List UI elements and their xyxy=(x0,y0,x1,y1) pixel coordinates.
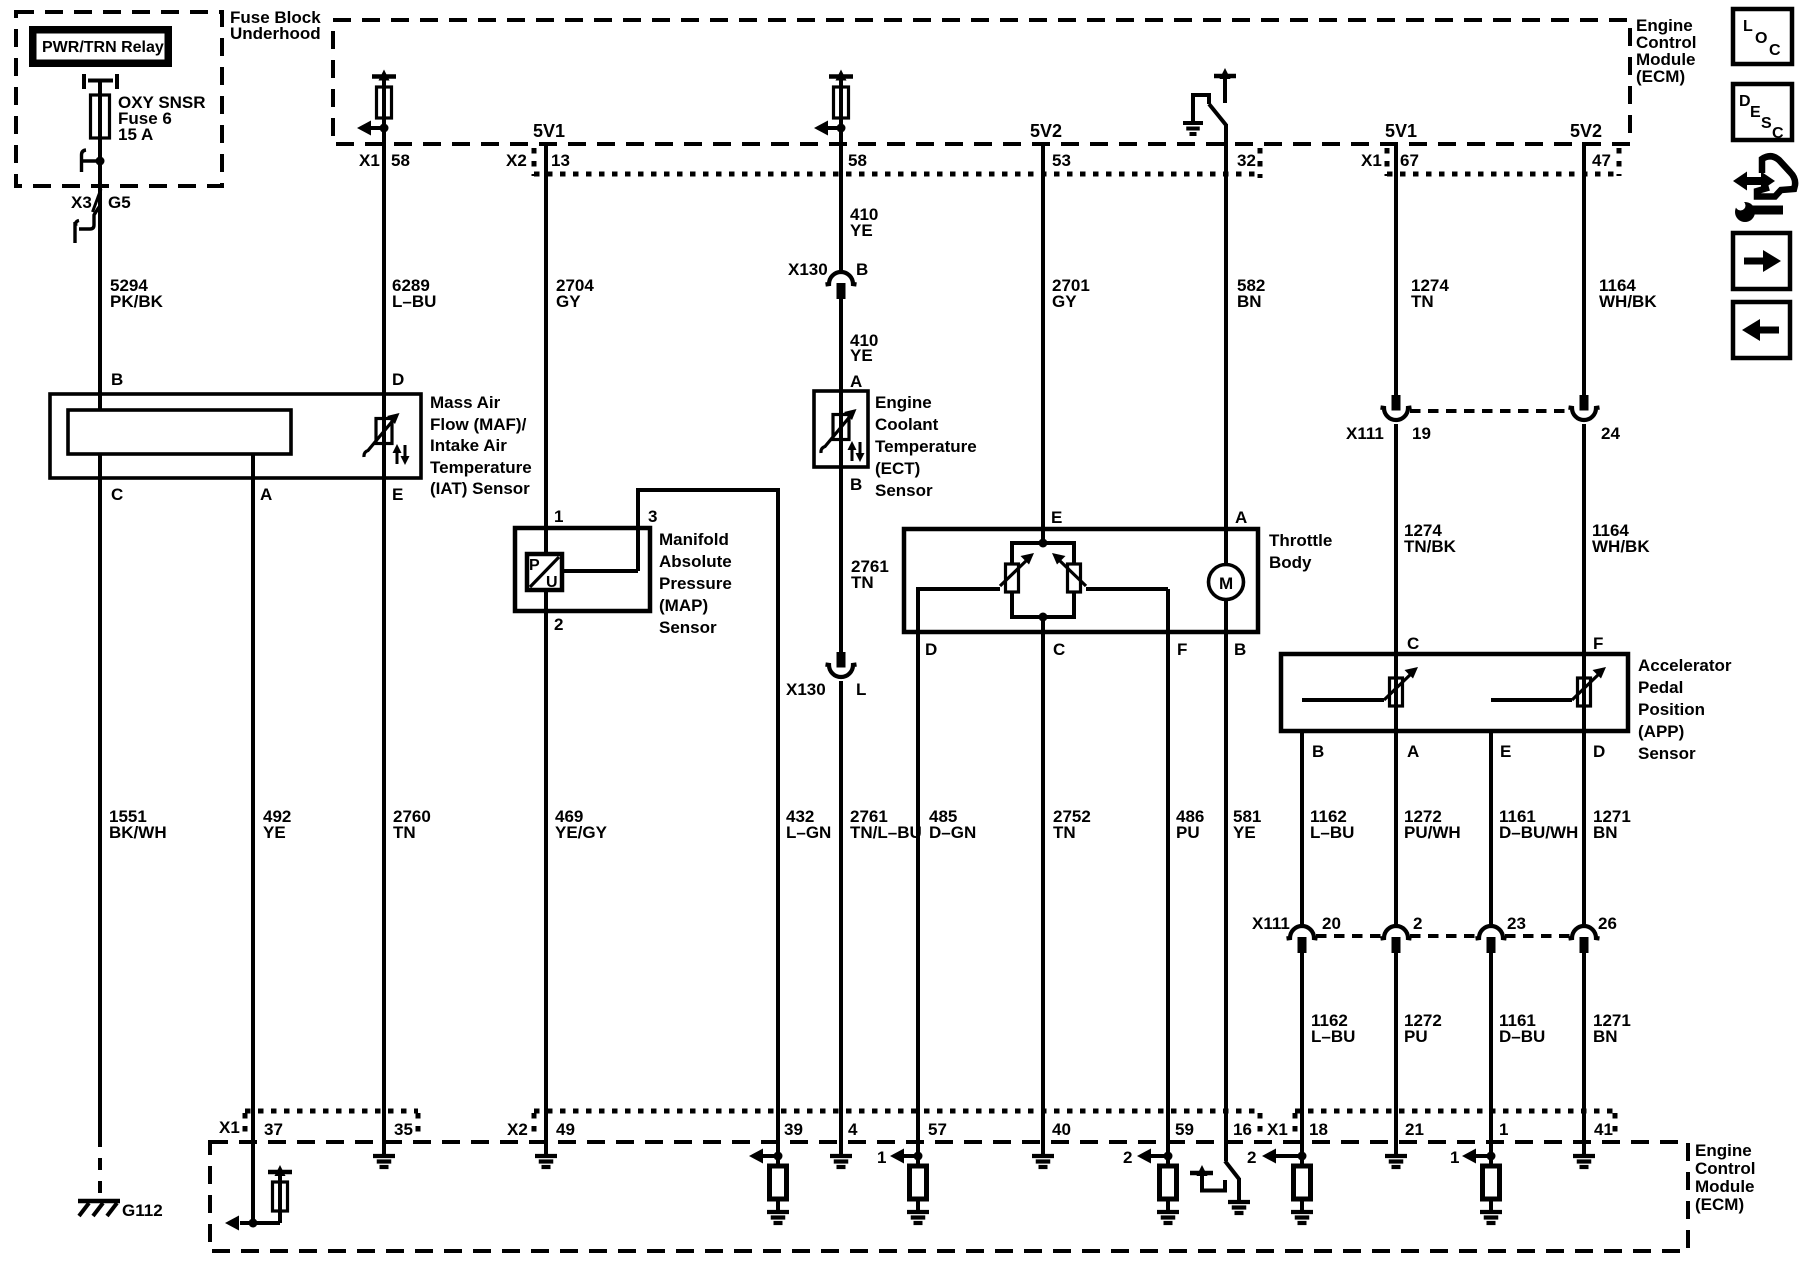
ECT thermistor RT2 xyxy=(821,391,865,467)
svg-text:X1: X1 xyxy=(359,151,380,170)
svg-text:L–BU: L–BU xyxy=(1311,1027,1355,1046)
svg-text:Module: Module xyxy=(1695,1177,1755,1196)
fuse block underhood box xyxy=(16,8,321,186)
harness dashed between X111 bottom pins xyxy=(1316,934,1570,938)
wire 469 YE/GY xyxy=(546,528,608,1142)
svg-text:47: 47 xyxy=(1592,151,1611,170)
svg-text:B: B xyxy=(1234,640,1246,659)
svg-text:(ECT): (ECT) xyxy=(875,459,920,478)
svg-text:TN: TN xyxy=(1053,823,1076,842)
svg-text:Manifold: Manifold xyxy=(659,530,729,549)
sensor B34 ECT box xyxy=(814,391,977,500)
svg-text:39: 39 xyxy=(784,1120,803,1139)
svg-text:PU: PU xyxy=(1404,1027,1428,1046)
svg-text:TN: TN xyxy=(393,823,416,842)
wire 2761 TN/L-BU xyxy=(841,681,922,1142)
svg-text:5V1: 5V1 xyxy=(533,121,565,141)
svg-text:GY: GY xyxy=(556,292,581,311)
svg-text:Coolant: Coolant xyxy=(875,415,939,434)
svg-text:37: 37 xyxy=(264,1120,283,1139)
sensor B MAP box xyxy=(515,528,732,637)
wire 1551 BK/WH xyxy=(100,454,167,1199)
svg-text:B: B xyxy=(1312,742,1324,761)
svg-text:(APP): (APP) xyxy=(1638,722,1684,741)
svg-text:D: D xyxy=(392,370,404,389)
svg-text:B: B xyxy=(856,260,868,279)
svg-text:1: 1 xyxy=(554,507,563,526)
svg-text:13: 13 xyxy=(551,151,570,170)
svg-text:E: E xyxy=(1051,508,1062,527)
svg-text:16: 16 xyxy=(1233,1120,1252,1139)
pin 4 ground in ECM xyxy=(830,1120,858,1167)
connector line X1 bottom right xyxy=(1295,1111,1615,1139)
svg-text:YE/GY: YE/GY xyxy=(555,823,608,842)
wire 432 L-GN xyxy=(778,488,831,1156)
sensor B APP box xyxy=(1281,654,1732,763)
svg-text:O: O xyxy=(1755,30,1767,47)
svg-text:D: D xyxy=(925,640,937,659)
svg-text:G112: G112 xyxy=(122,1201,163,1220)
svg-text:D: D xyxy=(1739,93,1751,110)
wire from fuse 6 to X3 G5 xyxy=(82,138,105,394)
pin 40 ground in ECM xyxy=(1032,1120,1071,1167)
APP sensor 2 potentiometer xyxy=(1491,654,1606,731)
pin 41 ground in ECM xyxy=(1573,1120,1613,1167)
svg-text:YE: YE xyxy=(263,823,286,842)
svg-text:Temperature: Temperature xyxy=(875,437,977,456)
wire 1272 PU lower xyxy=(1396,952,1442,1142)
svg-text:Body: Body xyxy=(1269,553,1312,572)
pin 32 top xyxy=(1237,151,1256,170)
svg-text:53: 53 xyxy=(1052,151,1071,170)
icon right arrow box xyxy=(1733,233,1790,289)
node 5V1 X1 67 xyxy=(1361,121,1419,170)
svg-text:PK/BK: PK/BK xyxy=(110,292,164,311)
svg-text:P: P xyxy=(529,557,540,574)
svg-text:4: 4 xyxy=(848,1120,858,1139)
svg-text:Flow (MAF)/: Flow (MAF)/ xyxy=(430,415,527,434)
svg-text:20: 20 xyxy=(1322,914,1341,933)
svg-text:5V1: 5V1 xyxy=(1385,121,1417,141)
svg-text:D: D xyxy=(1593,742,1605,761)
svg-text:X1: X1 xyxy=(219,1118,240,1137)
svg-text:L–BU: L–BU xyxy=(392,292,436,311)
svg-text:BN: BN xyxy=(1593,1027,1618,1046)
MAP transducer P/U symbol xyxy=(527,554,562,591)
svg-text:TN: TN xyxy=(1411,292,1434,311)
svg-text:Position: Position xyxy=(1638,700,1705,719)
svg-text:2: 2 xyxy=(554,615,563,634)
wire 2761 TN xyxy=(841,467,889,652)
wire 1272 PU/WH xyxy=(1396,731,1461,926)
pin 35 ground in ECM xyxy=(373,1120,413,1167)
svg-text:WH/BK: WH/BK xyxy=(1599,292,1657,311)
svg-text:E: E xyxy=(1500,742,1511,761)
svg-text:PWR/TRN Relay: PWR/TRN Relay xyxy=(42,39,164,56)
wire 2760 TN xyxy=(384,443,431,1142)
svg-text:PU: PU xyxy=(1176,823,1200,842)
svg-text:YE: YE xyxy=(850,346,873,365)
svg-text:3: 3 xyxy=(648,507,657,526)
wire 1274 TN/BK xyxy=(1396,424,1457,654)
svg-text:2: 2 xyxy=(1123,1148,1132,1167)
connector X111 pin 26 xyxy=(1569,914,1617,953)
svg-text:X1: X1 xyxy=(1267,1120,1288,1139)
svg-text:S: S xyxy=(1761,115,1772,132)
svg-text:21: 21 xyxy=(1405,1120,1424,1139)
svg-text:58: 58 xyxy=(391,151,410,170)
svg-text:Sensor: Sensor xyxy=(1638,744,1696,763)
svg-text:YE: YE xyxy=(1233,823,1256,842)
svg-text:C: C xyxy=(1769,42,1781,59)
sensor B5 Mass Air Flow / IAT box xyxy=(50,393,532,498)
svg-text:2: 2 xyxy=(1413,914,1422,933)
svg-text:BN: BN xyxy=(1237,292,1262,311)
svg-text:BN: BN xyxy=(1593,823,1618,842)
svg-text:Sensor: Sensor xyxy=(659,618,717,637)
pin 18 termination xyxy=(1247,1120,1328,1223)
svg-text:A: A xyxy=(850,372,862,391)
pin 58 top xyxy=(848,151,867,170)
connector X3 G5 xyxy=(71,189,131,243)
node 5V2 pin 47 xyxy=(1570,121,1611,170)
svg-text:TN: TN xyxy=(851,573,874,592)
svg-text:D–GN: D–GN xyxy=(929,823,976,842)
svg-text:L–GN: L–GN xyxy=(786,823,831,842)
svg-text:TN/L–BU: TN/L–BU xyxy=(850,823,922,842)
svg-text:Sensor: Sensor xyxy=(875,481,933,500)
APP sensor 1 potentiometer xyxy=(1302,654,1418,731)
connector line X2 bottom xyxy=(534,1111,1260,1139)
svg-text:C: C xyxy=(1053,640,1065,659)
harness dashed between X111 19 and 24 xyxy=(1410,409,1572,413)
wire 6289 L-BU xyxy=(384,130,436,394)
svg-text:19: 19 xyxy=(1412,424,1431,443)
svg-text:Underhood: Underhood xyxy=(230,24,321,43)
node 5V1 X2 13 xyxy=(506,121,570,170)
svg-text:Accelerator: Accelerator xyxy=(1638,656,1732,675)
wire 1161 D-BU/WH xyxy=(1491,731,1578,926)
svg-text:Pressure: Pressure xyxy=(659,574,732,593)
wire 410 YE lower xyxy=(841,296,878,391)
svg-text:L: L xyxy=(1743,18,1753,35)
svg-text:59: 59 xyxy=(1175,1120,1194,1139)
svg-text:5V2: 5V2 xyxy=(1570,121,1602,141)
svg-text:Pedal: Pedal xyxy=(1638,678,1683,697)
pin 21 ground in ECM xyxy=(1385,1120,1424,1167)
svg-text:49: 49 xyxy=(556,1120,575,1139)
throttle internal wire D xyxy=(916,589,920,632)
relay K PWR/TRN Relay xyxy=(29,26,172,95)
svg-text:U: U xyxy=(546,574,558,591)
wire 5294 PK/BK xyxy=(110,276,164,311)
svg-text:Absolute: Absolute xyxy=(659,552,732,571)
wire B MAF feed (5294) xyxy=(98,394,102,410)
wire 410 YE upper xyxy=(841,130,878,272)
icon LOC box xyxy=(1733,9,1792,64)
svg-text:A: A xyxy=(1407,742,1419,761)
svg-text:X130: X130 xyxy=(788,260,828,279)
wire 492 YE xyxy=(253,454,291,1223)
MAF sensing element xyxy=(68,410,291,454)
svg-text:X111: X111 xyxy=(1346,424,1384,443)
svg-text:C: C xyxy=(111,485,123,504)
svg-text:L–BU: L–BU xyxy=(1310,823,1354,842)
connector line X1 bottom left xyxy=(245,1111,418,1139)
svg-text:1: 1 xyxy=(1499,1120,1508,1139)
wire 485 D-GN xyxy=(918,632,976,1156)
wire 1164 WH/BK top xyxy=(1584,142,1657,395)
wire 1271 BN lower xyxy=(1584,952,1631,1142)
svg-text:M: M xyxy=(1219,574,1233,593)
ECM internal switch to ground at pin 16 xyxy=(1190,1120,1252,1213)
svg-text:57: 57 xyxy=(928,1120,947,1139)
connector X130 pin L xyxy=(786,652,866,699)
svg-text:PU/WH: PU/WH xyxy=(1404,823,1461,842)
pin 1 termination xyxy=(1450,1120,1508,1223)
svg-text:Temperature: Temperature xyxy=(430,458,532,477)
svg-text:(ECM): (ECM) xyxy=(1695,1195,1744,1214)
throttle internal wire F xyxy=(1086,587,1168,591)
wire MAP 3 signal routing xyxy=(562,488,778,571)
wire 1164 WH/BK mid xyxy=(1584,424,1650,654)
svg-text:26: 26 xyxy=(1598,914,1617,933)
connector X111 pin 23 xyxy=(1476,914,1526,953)
svg-text:B: B xyxy=(111,370,123,389)
svg-text:Throttle: Throttle xyxy=(1269,531,1332,550)
svg-text:2: 2 xyxy=(1247,1148,1256,1167)
svg-text:X111: X111 xyxy=(1252,914,1290,933)
svg-text:Mass Air: Mass Air xyxy=(430,393,501,412)
svg-text:WH/BK: WH/BK xyxy=(1592,537,1650,556)
pin 59 termination xyxy=(1123,1120,1194,1223)
ECM internal fuse to pin X1 58 xyxy=(357,70,396,136)
wire 582 BN xyxy=(1226,125,1265,529)
svg-text:GY: GY xyxy=(1052,292,1077,311)
throttle TP sensor 1 potentiometer xyxy=(1000,553,1034,592)
icon left arrow box xyxy=(1733,302,1790,358)
svg-text:D–BU/WH: D–BU/WH xyxy=(1499,823,1578,842)
throttle TP sensor 2 potentiometer xyxy=(1052,553,1086,592)
wire 2704 GY xyxy=(546,142,594,528)
svg-text:C: C xyxy=(1407,634,1419,653)
svg-text:1: 1 xyxy=(1450,1148,1459,1167)
connector X111 pin 24 xyxy=(1569,395,1621,443)
svg-text:(ECM): (ECM) xyxy=(1636,67,1685,86)
svg-text:D–BU: D–BU xyxy=(1499,1027,1545,1046)
svg-text:YE: YE xyxy=(850,221,873,240)
IAT thermistor RT1 xyxy=(364,394,410,465)
svg-text:E: E xyxy=(1750,104,1761,121)
svg-text:58: 58 xyxy=(848,151,867,170)
svg-text:A: A xyxy=(1235,508,1247,527)
pin 37 pull-up and output arrow xyxy=(225,1120,292,1231)
connector X130 pin B xyxy=(788,260,868,299)
icon DESC box xyxy=(1733,84,1792,142)
svg-text:40: 40 xyxy=(1052,1120,1071,1139)
ECM internal switch to ground at pin 32 xyxy=(1183,68,1236,146)
fuse F6 OXY SNSR Fuse 6 15 A xyxy=(91,93,206,144)
svg-text:C: C xyxy=(1772,125,1784,142)
icon wrench and arrows xyxy=(1733,156,1795,222)
svg-text:Engine: Engine xyxy=(1695,1141,1752,1160)
svg-text:F: F xyxy=(1593,634,1603,653)
wire 1271 BN upper xyxy=(1584,731,1631,926)
ECM bottom box Engine Control Module xyxy=(210,1141,1755,1251)
throttle position sensor bridge xyxy=(1012,529,1074,632)
svg-text:1: 1 xyxy=(877,1148,886,1167)
svg-text:15 A: 15 A xyxy=(118,125,153,144)
svg-text:(MAP): (MAP) xyxy=(659,596,708,615)
connector X111 pin 20 xyxy=(1252,914,1341,953)
wire 581 YE xyxy=(1226,632,1261,1161)
svg-text:X2: X2 xyxy=(507,1120,528,1139)
svg-text:32: 32 xyxy=(1237,151,1256,170)
svg-text:67: 67 xyxy=(1400,151,1419,170)
svg-text:18: 18 xyxy=(1309,1120,1328,1139)
svg-text:E: E xyxy=(392,485,403,504)
connector X111 pin 2 xyxy=(1381,914,1423,953)
node 5V2 pin 53 xyxy=(1030,121,1071,170)
connector X111 pin 19 xyxy=(1346,395,1431,443)
svg-text:24: 24 xyxy=(1601,424,1620,443)
ECM top box Engine Control Module xyxy=(333,16,1696,144)
svg-text:X130: X130 xyxy=(786,680,826,699)
wire 1274 TN xyxy=(1396,142,1449,395)
svg-text:X3: X3 xyxy=(71,193,92,212)
svg-text:Control: Control xyxy=(1695,1159,1755,1178)
svg-text:L: L xyxy=(856,680,866,699)
pin X1 58 top xyxy=(359,151,410,170)
wire 1162 L-BU upper xyxy=(1302,731,1354,926)
wire 2701 GY xyxy=(1043,142,1090,529)
throttle body box xyxy=(904,529,1332,632)
throttle motor M xyxy=(1209,529,1244,632)
svg-text:5V2: 5V2 xyxy=(1030,121,1062,141)
svg-text:X1: X1 xyxy=(1361,151,1382,170)
svg-text:(IAT) Sensor: (IAT) Sensor xyxy=(430,479,530,498)
wire 1161 D-BU lower xyxy=(1491,952,1545,1156)
wire 2752 TN xyxy=(1043,632,1091,1142)
ECM internal fuse to pin 58 xyxy=(814,70,853,136)
wire 1162 L-BU lower xyxy=(1302,952,1355,1156)
wire 486 PU xyxy=(1168,632,1204,1156)
svg-text:B: B xyxy=(850,475,862,494)
svg-text:X2: X2 xyxy=(506,151,527,170)
connector line X2 top xyxy=(534,148,1260,178)
pin 57 termination xyxy=(877,1120,947,1223)
svg-text:Engine: Engine xyxy=(875,393,932,412)
svg-text:41: 41 xyxy=(1594,1120,1613,1139)
svg-text:35: 35 xyxy=(394,1120,413,1139)
svg-text:TN/BK: TN/BK xyxy=(1404,537,1457,556)
svg-text:BK/WH: BK/WH xyxy=(109,823,167,842)
svg-text:G5: G5 xyxy=(108,193,131,212)
connector line X1 top xyxy=(1387,148,1619,176)
svg-text:A: A xyxy=(260,485,272,504)
ground G112 xyxy=(78,1201,163,1220)
svg-text:23: 23 xyxy=(1507,914,1526,933)
svg-text:F: F xyxy=(1177,640,1187,659)
pin 39 termination xyxy=(749,1120,803,1223)
svg-text:Intake Air: Intake Air xyxy=(430,436,507,455)
pin 49 ground in ECM xyxy=(535,1120,575,1167)
